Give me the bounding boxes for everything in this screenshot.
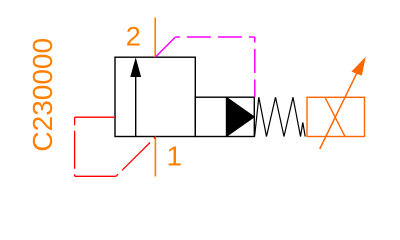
svg-text:C230000: C230000 xyxy=(27,38,58,152)
svg-text:2: 2 xyxy=(126,22,141,52)
svg-text:1: 1 xyxy=(167,140,183,171)
